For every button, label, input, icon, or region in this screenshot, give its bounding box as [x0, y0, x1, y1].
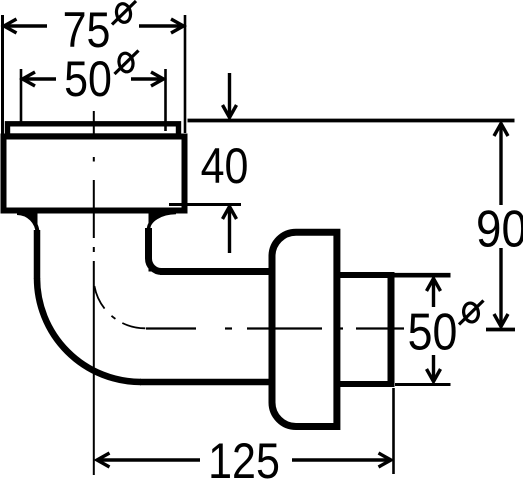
outlet pipe top wall [337, 272, 392, 278]
dim 50 top: diameter symbol [115, 51, 139, 75]
dim 90: top arrow (points up) [499, 124, 502, 205]
dim 50 top: right arrow [131, 77, 164, 80]
dim 40: bottom extension line [169, 203, 241, 206]
centerline horizontal: dash [356, 327, 404, 329]
centerline vertical: dot [93, 157, 95, 162]
dim 125: right arrow [292, 458, 391, 461]
svg-text:50: 50 [408, 303, 458, 361]
outlet pipe end cap [388, 272, 395, 387]
dim 50 top: left extension line [20, 69, 23, 122]
socket lip (gasket ring) [8, 124, 179, 136]
centerline horizontal (outlet axis): dash [146, 327, 196, 329]
dim 75: right arrow [139, 24, 184, 27]
left pipe wall fillet arc [17, 213, 38, 234]
dim 125: left arrow [97, 458, 200, 461]
svg-text:75: 75 [63, 2, 111, 58]
socket body [4, 137, 185, 211]
elbow outer bend wall [37, 278, 141, 382]
dim 75: left arrow [4, 24, 47, 27]
svg-text:90: 90 [476, 201, 523, 258]
centerline horizontal: dot [337, 327, 343, 329]
vertical pipe left wall [34, 230, 41, 279]
centerline vertical: dash [93, 180, 95, 238]
svg-text:40: 40 [201, 138, 249, 194]
left pipe wall fillet (filled wedge) [17, 213, 38, 234]
svg-text:125: 125 [208, 433, 280, 480]
dim 40: bottom arrow (points up) [228, 207, 231, 253]
elbow inner corner (filled) [149, 259, 162, 272]
dim 50 right: top extension line [393, 273, 451, 278]
dim 90: bottom extension line [486, 328, 515, 332]
dim 50 right: bottom arrow (points down) [432, 355, 435, 382]
horizontal pipe top wall [160, 268, 272, 275]
dim 50 right: bottom extension line [395, 383, 451, 386]
outlet pipe bottom wall [337, 381, 392, 387]
dim 50 top: right extension line [164, 69, 167, 131]
right pipe wall fillet (filled wedge) [149, 213, 177, 230]
dim 90: bottom arrow (points down) [499, 248, 502, 326]
horizontal pipe bottom wall [140, 379, 272, 386]
centerline vertical: long lower run (also 125 left extension) [93, 261, 95, 475]
svg-text:50: 50 [64, 51, 112, 107]
union flange (rounded left corners) [272, 232, 337, 426]
centerline horizontal: dash [247, 327, 322, 329]
dim 40: top arrow (points down) [228, 73, 231, 117]
dim 50 right: diameter symbol [459, 301, 484, 325]
dim 75: right extension line [184, 15, 187, 133]
centerline bend arc (dash-dot) [94, 286, 145, 328]
centerline horizontal: dot [225, 327, 232, 329]
vertical pipe right wall [145, 228, 152, 259]
dim 75: left extension line [1, 15, 4, 135]
dim 125: right extension line [392, 388, 395, 474]
centerline vertical: dot [93, 247, 95, 252]
dim 75: diameter symbol [112, 1, 136, 25]
shared extension line (top of socket, 40/90 dims) [188, 119, 515, 123]
right pipe wall fillet arc [149, 213, 177, 230]
dim 50 right: top arrow (points up) [432, 279, 435, 307]
dim 50 top: left arrow [23, 77, 57, 80]
centerline vertical (pipe axis): dash [93, 111, 95, 135]
